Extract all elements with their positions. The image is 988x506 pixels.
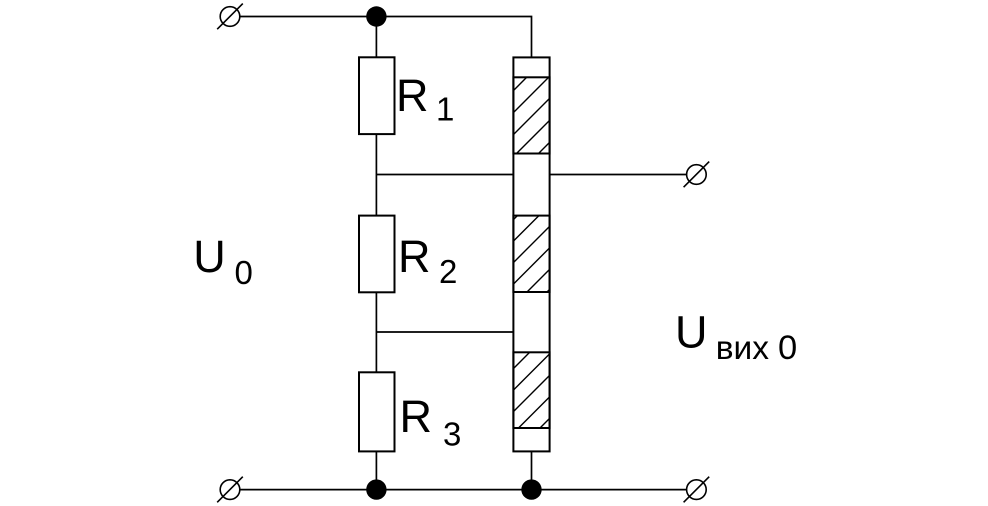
resistor R1: [359, 57, 395, 134]
svg-text:U: U: [193, 231, 226, 282]
svg-text:R: R: [400, 391, 433, 442]
wire R2 to R3: [375, 292, 377, 372]
wire from node A down to R1: [375, 17, 377, 58]
wire slider to bottom bus: [531, 451, 533, 489]
terminal input top-left: [217, 4, 243, 30]
switch wiper column outline: [513, 57, 549, 451]
terminal output bottom-right: [684, 477, 710, 503]
switch contact segment 2 (hatched): [513, 216, 549, 292]
svg-text:3: 3: [443, 416, 461, 453]
switch contact segment 1 (hatched): [513, 77, 549, 153]
wire tap node B to slider: [376, 174, 513, 176]
label U0 input voltage: [193, 231, 253, 291]
label R3: [400, 391, 462, 453]
svg-text:вих: вих: [716, 330, 770, 367]
wire top bus with corner down to slider: [240, 17, 532, 58]
wire tap node C to slider: [376, 331, 513, 333]
terminal output middle-right: [684, 162, 710, 188]
wire R1 to R2: [375, 134, 377, 216]
svg-text:R: R: [398, 231, 431, 282]
label R1: [396, 70, 454, 128]
svg-text:0: 0: [778, 329, 797, 367]
junction node E (bottom, slider): [521, 479, 541, 499]
svg-text:0: 0: [235, 254, 253, 291]
junction node D (bottom, R3): [366, 479, 386, 499]
svg-text:U: U: [675, 307, 708, 358]
resistor R3: [359, 372, 395, 451]
wire output to terminal: [550, 174, 687, 176]
switch contact segment 3 (hatched): [513, 352, 549, 428]
svg-text:1: 1: [436, 91, 454, 128]
wire bottom bus: [240, 489, 687, 491]
svg-text:R: R: [396, 70, 429, 121]
label R2: [398, 231, 457, 290]
junction node A (top): [366, 6, 386, 26]
label U vih 0 output voltage: [675, 307, 797, 367]
resistor R2: [359, 216, 395, 293]
wire R3 to bottom bus: [375, 451, 377, 489]
terminal input bottom-left: [217, 477, 243, 503]
svg-text:2: 2: [439, 253, 457, 290]
